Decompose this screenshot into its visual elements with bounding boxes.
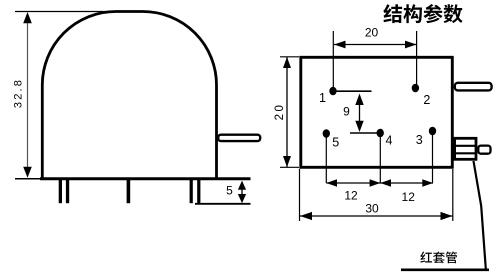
svg-text:5: 5 — [332, 135, 339, 149]
svg-text:2: 2 — [423, 93, 430, 107]
svg-text:1: 1 — [319, 91, 326, 105]
svg-text:4: 4 — [386, 134, 393, 148]
svg-text:30: 30 — [365, 202, 379, 216]
svg-text:12: 12 — [344, 188, 358, 202]
svg-text:9: 9 — [343, 105, 350, 119]
svg-text:5: 5 — [226, 184, 233, 198]
svg-text:3: 3 — [416, 133, 423, 147]
svg-text:20: 20 — [274, 103, 286, 121]
svg-text:12: 12 — [402, 190, 416, 204]
svg-text:20: 20 — [365, 25, 379, 39]
svg-text:32.8: 32.8 — [13, 78, 25, 108]
